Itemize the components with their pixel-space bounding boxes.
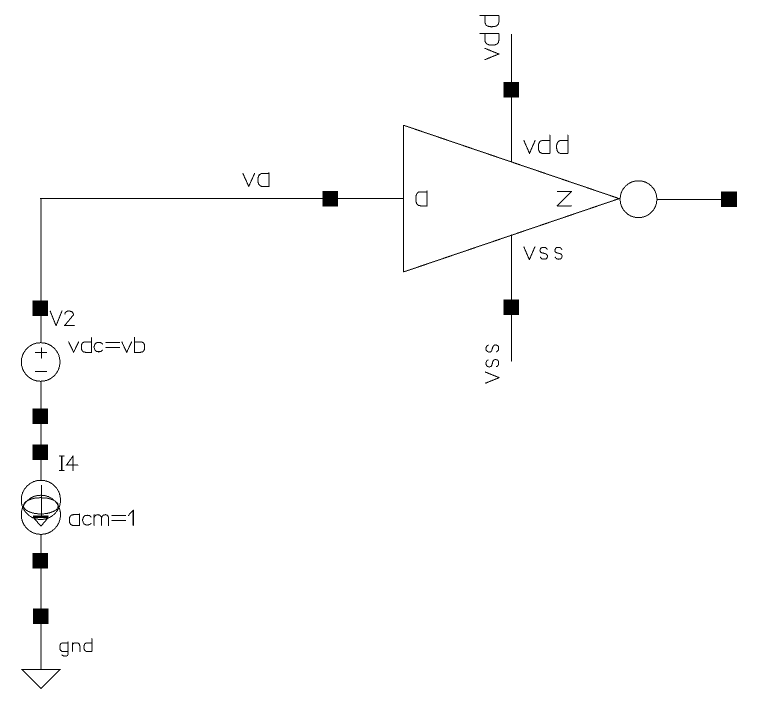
value label acm=1 xyxy=(69,510,133,526)
net label va xyxy=(243,173,269,187)
pin square I4 plus xyxy=(33,445,49,461)
inverter symbol body xyxy=(404,125,620,272)
wire output xyxy=(657,199,721,200)
pin label a xyxy=(416,191,427,206)
pin label Z xyxy=(557,192,571,206)
current source I4 symbol xyxy=(21,480,60,519)
ground symbol xyxy=(22,669,61,688)
output bubble xyxy=(620,181,657,218)
pin square V2 minus xyxy=(33,408,49,424)
wire I4 to gnd xyxy=(40,534,41,669)
instance label I4 xyxy=(59,456,77,471)
pin square vdd stub xyxy=(504,82,520,98)
wire left rail upper xyxy=(40,198,41,343)
net label vdd (vertical) xyxy=(480,16,499,60)
pin label vdd xyxy=(524,135,568,153)
value label vdc=vb xyxy=(69,338,145,353)
voltage source V2 symbol xyxy=(21,343,60,382)
wire vss stub xyxy=(511,235,512,362)
instance label V2 xyxy=(50,311,74,326)
wire va horizontal xyxy=(40,198,404,199)
pin square V2 plus xyxy=(33,301,49,317)
pin square I4 minus xyxy=(32,553,48,569)
net label gnd xyxy=(60,639,92,657)
net label vss (vertical) xyxy=(486,345,500,383)
pin square gnd xyxy=(33,608,49,624)
pin square vss stub xyxy=(504,299,520,315)
pin square output xyxy=(721,191,737,207)
wire vdd stub xyxy=(511,34,512,162)
pin label vss xyxy=(524,247,562,260)
junction square on va wire xyxy=(322,191,338,207)
wire V2 to I4 xyxy=(40,381,41,481)
